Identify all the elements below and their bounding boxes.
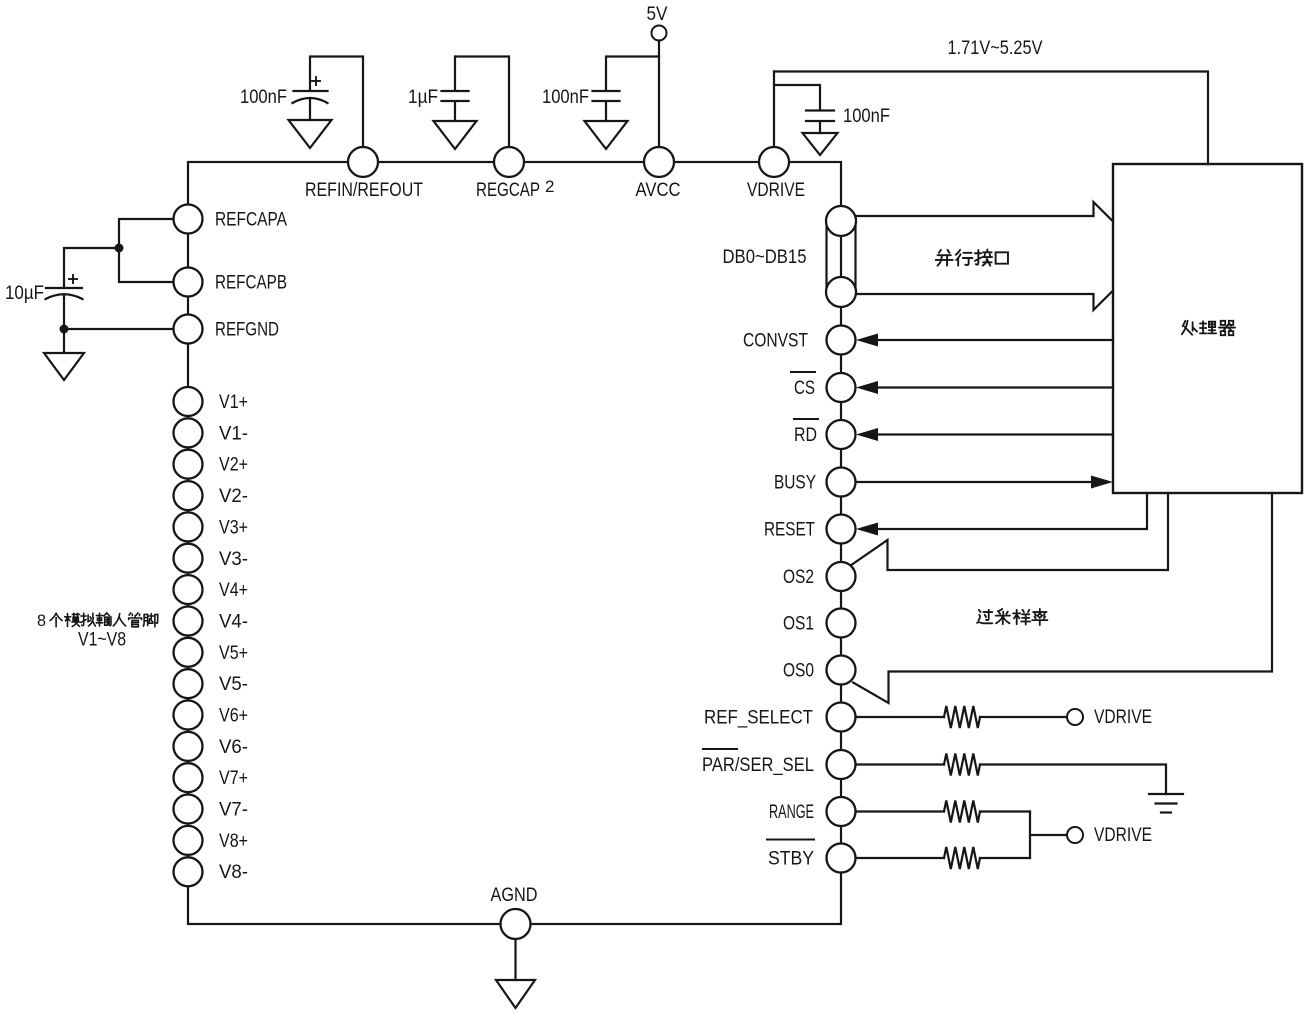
wire C4 to ground [819, 122, 821, 133]
svg-text:V6+: V6+ [219, 705, 248, 727]
svg-text:VDRIVE: VDRIVE [1094, 824, 1152, 846]
svg-text:V3-: V3- [219, 548, 248, 570]
wire VDRIVE branch to C4 [774, 85, 820, 110]
pin V8+ [174, 826, 249, 855]
ground below C2 [434, 121, 477, 149]
pin REF_SELECT [704, 703, 856, 732]
svg-text:100nF: 100nF [843, 105, 890, 127]
pin V1- [174, 418, 249, 447]
svg-text:1µF: 1µF [408, 86, 438, 108]
svg-text:OS2: OS2 [783, 566, 814, 588]
pin V6+ [174, 701, 249, 730]
svg-text:REGCAP: REGCAP [476, 179, 540, 201]
svg-text:V5+: V5+ [219, 642, 248, 664]
wire DB bus stadium left [825, 221, 827, 292]
wire C1 to ground [309, 98, 311, 120]
pin REGCAP [476, 147, 554, 201]
wire junction down to ground [63, 329, 65, 353]
node junction at REFGND [60, 325, 69, 334]
pin DB15 [723, 246, 857, 307]
ground below C1 [289, 120, 332, 148]
svg-text:5V: 5V [647, 3, 668, 25]
wire REGCAP to C2 [455, 57, 509, 151]
IC U1 body outline [188, 162, 841, 924]
svg-text:V2+: V2+ [219, 454, 248, 476]
wire C5 to ground node [63, 295, 65, 330]
svg-text:REF_SELECT: REF_SELECT [704, 707, 813, 729]
capacitor C2 1uF [442, 91, 469, 101]
wire OS0 bus entry to processor [853, 493, 1272, 703]
pin RANGE [769, 797, 856, 826]
pin REFIN/REFOUT [305, 147, 423, 201]
label 过采样率 [977, 609, 1047, 625]
svg-text:REFIN/REFOUT: REFIN/REFOUT [305, 179, 423, 201]
ground below C3 [585, 121, 628, 149]
svg-text:CONVST: CONVST [743, 330, 808, 352]
svg-text:V1-: V1- [219, 422, 248, 444]
svg-text:REFCAPA: REFCAPA [215, 209, 287, 231]
wire REFCAPA/REFCAPB loop [119, 219, 174, 282]
wire R2 to ground [980, 765, 1166, 795]
pin REFCAPB [174, 268, 288, 297]
resistor R4 [944, 847, 980, 869]
supply 5V terminal [647, 3, 668, 41]
svg-text:V5-: V5- [219, 673, 248, 695]
pin V5- [174, 669, 249, 698]
wire DB bus stadium right [854, 221, 856, 292]
pin V1+ [174, 387, 249, 416]
label 8个模拟输入管脚 V1~V8 [37, 611, 158, 651]
pin OS0 [783, 656, 856, 685]
wire junction to REFGND [64, 328, 174, 330]
wire BUSY to processor [856, 476, 1114, 489]
node junction on REFCAP loop [115, 244, 124, 253]
pin AVCC [636, 147, 681, 201]
pin V7- [174, 795, 249, 824]
svg-text:100nF: 100nF [542, 86, 589, 108]
svg-text:OS0: OS0 [783, 660, 814, 682]
ground below C4 [803, 133, 838, 155]
svg-text:2: 2 [545, 177, 554, 196]
pin DB0 [826, 206, 856, 236]
svg-text:OS1: OS1 [783, 613, 814, 635]
processor U2 block [1113, 164, 1302, 493]
svg-text:PAR/SER_SEL: PAR/SER_SEL [702, 754, 814, 776]
svg-text:AVCC: AVCC [636, 179, 681, 201]
svg-text:VDRIVE: VDRIVE [1094, 706, 1152, 728]
wire junction to C5 [64, 248, 119, 287]
svg-text:1.71V~5.25V: 1.71V~5.25V [948, 37, 1043, 59]
svg-text:V3+: V3+ [219, 516, 248, 538]
pin RESET [764, 515, 856, 544]
pin V8- [174, 857, 249, 886]
pin V3+ [174, 512, 249, 541]
svg-text:V8+: V8+ [219, 830, 248, 852]
wire 1.71V~5.25V rail to processor [774, 72, 1208, 165]
pin V2+ [174, 450, 249, 479]
wire C2 to ground [454, 102, 456, 121]
wire OS2 bus entry to processor [852, 493, 1168, 570]
label 并行接口 [936, 249, 1008, 265]
svg-text:8: 8 [37, 611, 46, 630]
svg-text:REFGND: REFGND [215, 319, 279, 341]
pin VDRIVE [747, 147, 805, 201]
capacitor C3 100nF [593, 91, 620, 101]
ground below AGND [496, 980, 535, 1008]
svg-text:V7-: V7- [219, 799, 248, 821]
wire REF_SELECT to R1 [856, 716, 945, 718]
wire RESET from processor bottom [856, 493, 1147, 536]
capacitor C4 100nF [806, 111, 834, 122]
svg-text:VDRIVE: VDRIVE [747, 179, 805, 201]
pin CS [791, 372, 856, 402]
pin V7+ [174, 763, 249, 792]
svg-text:RD: RD [794, 424, 817, 446]
svg-text:V4+: V4+ [219, 579, 248, 601]
svg-text:V1+: V1+ [219, 391, 248, 413]
svg-text:BUSY: BUSY [774, 472, 816, 494]
pin OS1 [783, 609, 856, 638]
wire PAR/SER_SEL to R2 [856, 763, 945, 765]
svg-text:STBY: STBY [768, 848, 814, 870]
wire join RANGE/STBY to VDRIVE terminal [1029, 812, 1031, 859]
ground (earth bars) for R2 [1149, 794, 1183, 813]
wire R1 to VDRIVE terminal [980, 716, 1067, 718]
wire REFIN/REFOUT to C1 [310, 57, 363, 151]
pin AGND [491, 884, 538, 939]
wire RANGE to R3 [856, 810, 945, 812]
terminal VDRIVE (RANGE/STBY pull-up) [1067, 824, 1152, 846]
pin OS2 [783, 562, 856, 591]
resistor R2 [944, 754, 980, 776]
ground below C5 [44, 353, 84, 380]
svg-text:REFCAPB: REFCAPB [215, 272, 287, 294]
capacitor C1 100nF (polarized) [293, 77, 328, 103]
svg-text:V6-: V6- [219, 736, 248, 758]
pin V2- [174, 481, 249, 510]
pin V3- [174, 544, 249, 573]
svg-text:DB0~DB15: DB0~DB15 [723, 246, 807, 268]
wire CONVST from processor [856, 334, 1113, 347]
svg-text:10µF: 10µF [5, 282, 44, 304]
wire CS from processor [856, 381, 1113, 394]
pin V5+ [174, 638, 249, 667]
wire parallel bus bottom line with barb [856, 291, 1113, 311]
wire R3 to join [980, 810, 1030, 812]
pin CONVST [743, 326, 856, 355]
svg-text:V4-: V4- [219, 611, 248, 633]
pin RD [794, 419, 856, 449]
svg-text:V1~V8: V1~V8 [78, 630, 126, 651]
pin V4+ [174, 575, 249, 604]
wire STBY to R4 [856, 857, 945, 859]
resistor R3 [944, 801, 980, 823]
svg-text:RESET: RESET [764, 519, 815, 541]
wire AGND to ground [514, 939, 516, 980]
pin PAR/SER_SEL [702, 749, 856, 779]
svg-text:100nF: 100nF [240, 86, 287, 108]
terminal VDRIVE (REF_SELECT pull-up) [1067, 706, 1152, 728]
capacitor C5 10uF (polarized) [46, 275, 83, 299]
wire parallel bus top line with barb [856, 202, 1113, 222]
svg-text:CS: CS [794, 377, 815, 399]
wire VDRIVE up to supply rail [773, 72, 775, 151]
svg-text:V2-: V2- [219, 485, 248, 507]
svg-text:V7+: V7+ [219, 767, 248, 789]
svg-text:V8-: V8- [219, 861, 248, 883]
pin STBY [767, 840, 856, 873]
wire R4 to join [980, 857, 1030, 859]
wire 5V branch to C3 [606, 57, 659, 91]
pin REFCAPA [174, 205, 288, 234]
svg-text:AGND: AGND [491, 884, 538, 906]
pin REFGND [174, 315, 280, 344]
svg-text:RANGE: RANGE [769, 801, 814, 823]
wire RD from processor [856, 428, 1113, 441]
wire 5V to AVCC [658, 41, 660, 151]
wire C3 to ground [605, 102, 607, 121]
pin BUSY [774, 468, 856, 497]
resistor R1 [944, 706, 980, 728]
pin V6- [174, 732, 249, 761]
pin V4- [174, 607, 249, 636]
